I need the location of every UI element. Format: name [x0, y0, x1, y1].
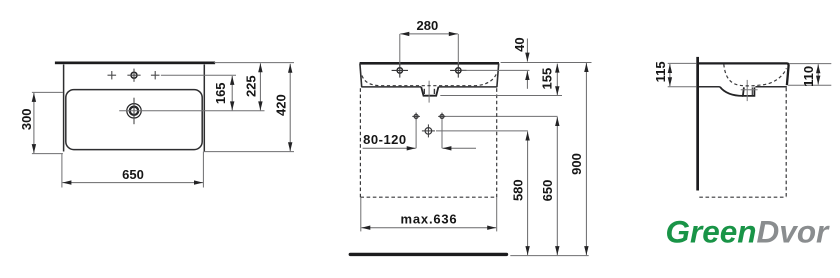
- side drain cross: [741, 80, 758, 101]
- svg-text:80-120: 80-120: [363, 132, 406, 147]
- extension lines 280: [399, 34, 401, 64]
- tap hole front left: [392, 64, 408, 77]
- wall fixing hole right: [438, 113, 446, 121]
- front drain box: [421, 87, 438, 96]
- svg-text:280: 280: [417, 18, 439, 33]
- svg-text:300: 300: [19, 108, 34, 130]
- dimension 300: [32, 93, 36, 153]
- dimension 650 plan: [62, 180, 203, 184]
- extension line tap level to 165 dim: [161, 74, 236, 76]
- dashed bowl side: [724, 64, 787, 86]
- svg-text:115: 115: [653, 61, 668, 82]
- dimension 580: [525, 132, 529, 256]
- extension line bottom right to 420 dim: [203, 151, 294, 153]
- side drain pipe wall: [751, 87, 753, 95]
- dashed cabinet outline side: [699, 88, 786, 198]
- dimension 115: [668, 64, 672, 86]
- dashed cabinet outline front: [360, 88, 496, 197]
- tap hole cross left: [108, 71, 117, 79]
- svg-text:40: 40: [512, 37, 527, 51]
- extension line top edge to 420 dim: [214, 62, 294, 64]
- floor line (thick): [350, 253, 506, 256]
- fixing hole guide verticals: [415, 119, 417, 148]
- front bottom edge: [361, 86, 421, 88]
- dimension 225: [258, 63, 262, 110]
- svg-text:650: 650: [122, 167, 144, 182]
- extension line tap level right: [462, 69, 530, 71]
- svg-text:110: 110: [801, 66, 816, 87]
- side bottom edge: [699, 86, 720, 88]
- dimension 280: [400, 32, 458, 36]
- svg-text:420: 420: [274, 94, 289, 116]
- side drain box: [743, 87, 755, 96]
- front rim top edge (thick): [360, 62, 499, 65]
- extension line fixing holes to 650 dim: [446, 115, 558, 117]
- svg-text:900: 900: [569, 153, 584, 175]
- svg-text:650: 650: [540, 180, 555, 202]
- dashed bowl bottom front: [362, 74, 497, 86]
- front right edge: [497, 63, 499, 87]
- extension lines max.636: [360, 197, 362, 231]
- svg-text:max.636: max.636: [401, 211, 458, 226]
- extension line siphon to 580 dim: [436, 130, 528, 132]
- drain outlet circles: [127, 98, 141, 125]
- dimension 650 front: [555, 117, 559, 255]
- extension lines 115: [668, 62, 697, 64]
- side rim top edge (thick): [699, 63, 789, 85]
- extension line 155 bottom: [440, 95, 562, 97]
- wall line (thick): [696, 57, 699, 191]
- extension lines 300 left: [32, 91, 63, 93]
- front left edge: [360, 63, 362, 87]
- dimension 155: [555, 64, 559, 96]
- dimension max.636: [361, 226, 496, 230]
- tap hole center circle: [127, 69, 140, 82]
- dimension 110: [816, 64, 820, 84]
- siphon center hole: [422, 124, 435, 137]
- tap hole front right: [450, 64, 466, 77]
- basin outer right edge: [203, 65, 205, 152]
- drain horizontal centerline / extension to 225 dim: [119, 110, 264, 112]
- drain pipe walls front: [423, 89, 425, 94]
- wall fixing hole left: [412, 113, 420, 121]
- extension lines 110: [789, 63, 831, 65]
- dimension 420: [288, 64, 292, 151]
- floor extension line: [510, 255, 588, 257]
- dimension 900: [584, 63, 588, 255]
- basin outer left edge: [63, 65, 65, 152]
- side apron curve: [720, 87, 743, 96]
- svg-text:155: 155: [539, 68, 554, 90]
- dimension 165: [230, 76, 234, 111]
- svg-text:225: 225: [243, 75, 258, 97]
- basin back rim (thick bar): [55, 62, 215, 65]
- dimension 80-120: [363, 146, 476, 150]
- svg-text:GreenDvor: GreenDvor: [666, 214, 831, 250]
- svg-text:165: 165: [213, 82, 228, 104]
- svg-text:580: 580: [511, 179, 526, 201]
- extension line rim level right: [501, 62, 592, 64]
- drain centerline front: [428, 81, 430, 103]
- extension lines 650 plan: [61, 154, 63, 188]
- basin inner bowl rounded rect: [66, 90, 202, 150]
- tap hole cross right: [151, 71, 160, 79]
- dimension 40 (outside arrows): [525, 39, 529, 89]
